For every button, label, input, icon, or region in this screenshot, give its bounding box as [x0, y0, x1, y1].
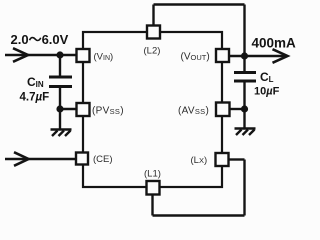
arrowhead VOUT output [273, 49, 288, 63]
svg-text:(L1): (L1) [144, 169, 161, 180]
svg-text:(AVSS): (AVSS) [178, 106, 209, 117]
svg-text:(VOUT): (VOUT) [181, 52, 210, 63]
wire AVss [230, 108, 245, 110]
wire CL top [243, 56, 245, 73]
wire loop bottom horizontal [153, 214, 245, 216]
arrowhead CE input [14, 152, 29, 166]
wire VIN input [5, 54, 77, 57]
svg-text:(LX): (LX) [191, 155, 208, 166]
svg-text:CL: CL [260, 70, 274, 84]
pin box AVss [216, 103, 230, 117]
capacitor CL [234, 73, 256, 82]
node junction CL-AVss-ground [241, 105, 248, 112]
arrowhead VIN input [13, 48, 28, 62]
svg-text:(L2): (L2) [144, 46, 161, 57]
svg-text:(VIN): (VIN) [94, 52, 114, 63]
wire PVss [60, 108, 77, 110]
wire loop right vertical [243, 160, 245, 216]
pin box PVss [77, 103, 90, 116]
wire L2 pin up [152, 5, 154, 27]
svg-text:400mA: 400mA [252, 36, 297, 51]
pin box VIN [77, 49, 90, 62]
ground right [235, 129, 256, 136]
pin box CE [76, 153, 88, 165]
node junction VIN-CIN [56, 51, 63, 58]
svg-text:(PVSS): (PVSS) [92, 106, 124, 117]
pin box L1 [147, 181, 160, 195]
svg-text:10µF: 10µF [254, 86, 280, 98]
node junction CIN-PVss-ground [56, 105, 63, 112]
svg-text:4.7µF: 4.7µF [20, 92, 50, 104]
wire top horizontal L2 to output [154, 3, 245, 5]
wire VOUT output [229, 55, 286, 58]
wire CIN top [59, 55, 61, 77]
capacitor CIN [49, 77, 72, 87]
pin box L2 [147, 26, 160, 39]
wire Lx to loop [229, 158, 245, 160]
wire L1 pin down [151, 195, 153, 216]
IC body U1 [83, 32, 222, 187]
wire to left ground [59, 109, 61, 129]
svg-text:(CE): (CE) [93, 154, 113, 165]
node junction VOUT-CL [241, 52, 248, 59]
wire top right vertical down [243, 5, 245, 57]
ground left [51, 130, 72, 137]
wire CE input [5, 158, 76, 161]
wire CL bottom [243, 81, 245, 109]
svg-text:CIN: CIN [27, 75, 44, 89]
wire to right ground [243, 109, 245, 128]
pin box VOUT [216, 49, 229, 62]
svg-text:2.0〜6.0V: 2.0〜6.0V [11, 32, 69, 47]
pin box Lx [216, 153, 229, 166]
wire CIN bottom [59, 87, 61, 110]
